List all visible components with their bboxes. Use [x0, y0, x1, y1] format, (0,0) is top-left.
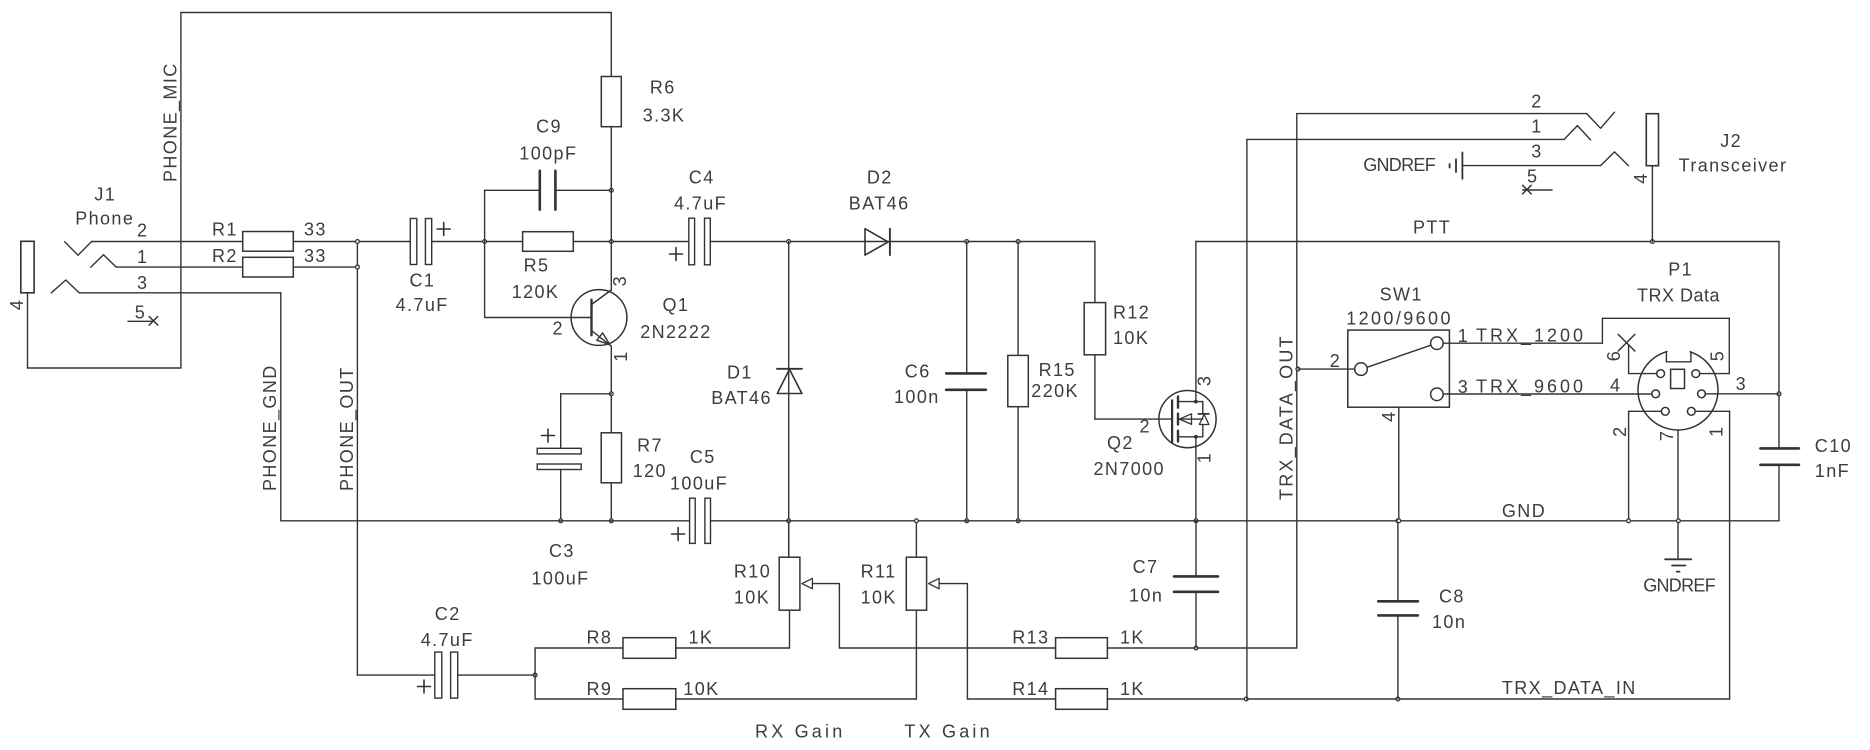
wire C10 bottom [1778, 465, 1780, 521]
svg-text:5: 5 [1527, 167, 1538, 187]
wire P1 pin2 GND [1629, 411, 1662, 521]
connector J1 sleeve bar [21, 241, 34, 292]
pin number P1-6 [1604, 350, 1624, 361]
label J2 [1679, 131, 1788, 176]
resistor R5 [523, 232, 574, 252]
pin number J1-1 [137, 247, 148, 267]
svg-text:TRX_DATA_IN: TRX_DATA_IN [1502, 678, 1637, 699]
svg-text:SW1: SW1 [1380, 285, 1423, 305]
wire Q2 source [1195, 437, 1197, 521]
transistor Q1 body [571, 290, 627, 346]
wire P1 pin3 [1705, 393, 1779, 395]
wire J2 pin4 [1651, 166, 1653, 242]
label P1 [1637, 260, 1721, 306]
node C9 out [609, 188, 613, 192]
wire to SW1 pin2 [1298, 368, 1355, 370]
pin number J1-4 [7, 299, 27, 310]
svg-text:1: 1 [611, 350, 631, 361]
svg-text:2: 2 [1330, 351, 1341, 371]
pin number SW1-3 [1458, 377, 1469, 397]
switch SW1 pin1 throw [1431, 337, 1444, 350]
svg-text:4.7uF: 4.7uF [396, 295, 449, 315]
svg-text:1: 1 [1706, 425, 1726, 436]
svg-text:TRX_DATA_OUT: TRX_DATA_OUT [1276, 334, 1297, 500]
svg-text:PHONE_OUT: PHONE_OUT [337, 366, 358, 491]
pin number P1-4 [1610, 376, 1621, 396]
svg-text:GNDREF: GNDREF [1363, 155, 1436, 175]
connector P1 pin6 circle [1657, 370, 1665, 378]
pin number Q1-2 [553, 319, 564, 339]
wire C6 top [966, 242, 968, 374]
pin number SW1-2 [1330, 351, 1341, 371]
svg-text:10K: 10K [861, 588, 897, 608]
svg-text:7: 7 [1657, 430, 1677, 441]
capacitor C1 polarity [437, 223, 450, 236]
svg-text:R15: R15 [1039, 360, 1076, 380]
net label GNDREF bottom [1643, 576, 1716, 596]
svg-text:R12: R12 [1113, 303, 1150, 323]
resistor R14 [1056, 689, 1108, 710]
wire R9 to R11 [676, 698, 917, 700]
label C9 [519, 117, 577, 164]
label C1 [396, 271, 449, 316]
net label TRX_1200 [1476, 326, 1586, 347]
label R14 [1012, 679, 1145, 699]
svg-text:2N2222: 2N2222 [640, 322, 711, 342]
svg-text:C2: C2 [435, 604, 461, 624]
label R2 [212, 246, 327, 266]
svg-text:220K: 220K [1031, 381, 1079, 401]
capacitor C2 plates [435, 652, 458, 698]
connector J2 sleeve bar [1646, 114, 1658, 166]
wire C7 top [1195, 521, 1197, 577]
transistor Q2 body [1159, 391, 1216, 448]
potentiometer R11 wiper [929, 578, 968, 699]
svg-text:1K: 1K [1120, 679, 1145, 699]
wire PHONE_MIC vertical [180, 13, 182, 369]
wire J1 pin1 to R2 [116, 266, 243, 268]
svg-text:J2: J2 [1720, 131, 1742, 151]
wire R10 bottom [789, 610, 791, 648]
svg-text:2: 2 [137, 221, 148, 241]
svg-text:PTT: PTT [1413, 218, 1451, 238]
svg-text:R11: R11 [861, 562, 897, 582]
wire Q1 base [485, 317, 592, 319]
connector P1 pin4 circle [1652, 390, 1660, 398]
svg-text:R5: R5 [524, 256, 550, 276]
wire emitter to C3 [561, 394, 612, 449]
svg-text:3: 3 [1736, 374, 1747, 394]
resistor R11 [906, 557, 926, 610]
svg-text:C3: C3 [549, 541, 575, 561]
connector J1 pin 5 no-connect [128, 317, 158, 326]
node D1 rail [787, 519, 791, 523]
node R1 out [356, 240, 360, 244]
svg-text:BAT46: BAT46 [711, 388, 772, 408]
svg-text:R10: R10 [734, 562, 771, 582]
pin number P1-5 [1707, 350, 1727, 361]
wire C2 node vertical [534, 648, 536, 699]
node P1 pin2 rail [1627, 519, 1631, 523]
wire PTT down to C10 [1778, 242, 1780, 449]
net label PTT [1413, 218, 1451, 238]
label C3 [532, 541, 590, 589]
resistor R1 [243, 232, 294, 252]
wire PHONE_OUT to C2 [357, 674, 434, 676]
svg-text:TRX_9600: TRX_9600 [1476, 377, 1586, 398]
svg-text:C10: C10 [1815, 436, 1852, 456]
node C2 out [533, 673, 537, 677]
ground GNDREF top [1450, 152, 1463, 178]
connector J2 pin5 no-connect [1523, 185, 1553, 194]
connector P1 pin1 circle [1687, 407, 1695, 415]
svg-text:10K: 10K [683, 679, 719, 699]
pin number J1-5 [135, 303, 146, 323]
wire C2 out [458, 674, 535, 676]
node R11 rail [915, 519, 919, 523]
wire J2 pin1 [1247, 138, 1564, 140]
svg-text:R1: R1 [212, 220, 238, 240]
label Q2 [1094, 433, 1165, 479]
svg-text:C7: C7 [1133, 557, 1159, 577]
connector J2 pin2 contact [1587, 112, 1615, 128]
svg-text:120: 120 [633, 461, 667, 481]
wire J1 pin2 to R1 [92, 241, 243, 243]
wire R6 top [610, 13, 612, 77]
potentiometer R10 wiper [802, 578, 840, 648]
wire R11 top [915, 521, 917, 557]
svg-text:3: 3 [610, 275, 630, 286]
svg-text:1: 1 [1195, 452, 1215, 463]
capacitor C3 polarity [542, 429, 555, 442]
pin number Q2-3 [1195, 375, 1215, 386]
svg-text:TX Gain: TX Gain [904, 722, 992, 742]
wire TRX_9600 [1443, 393, 1652, 395]
switch SW1 pin3 throw [1431, 388, 1444, 401]
label TX Gain [904, 722, 992, 742]
label R6 [643, 77, 686, 125]
wire Q1 emitter down [610, 346, 612, 433]
net label PHONE_GND [260, 364, 281, 491]
wire R7 bottom [610, 483, 612, 521]
svg-text:C8: C8 [1439, 587, 1465, 607]
capacitor C1 plates [410, 219, 431, 265]
svg-text:TRX Data: TRX Data [1637, 286, 1721, 306]
wire SW1 pin4 GND [1398, 407, 1400, 521]
connector J2 pin1 contact [1564, 126, 1590, 140]
pin number SW1-1 [1458, 326, 1469, 346]
svg-text:Q2: Q2 [1107, 433, 1134, 453]
transistor Q2 source link [1178, 435, 1203, 439]
pin number P1-1 [1706, 425, 1726, 436]
svg-text:33: 33 [304, 246, 327, 266]
wire P1 pin1 TRX_DATA_IN [1695, 411, 1729, 699]
svg-text:1200/9600: 1200/9600 [1346, 309, 1453, 329]
pin number J1-2 [137, 221, 148, 241]
capacitor C5 plates [690, 498, 711, 543]
pin number J2-3 [1531, 142, 1542, 162]
wire to R9 [535, 698, 623, 700]
svg-text:100pF: 100pF [519, 144, 577, 164]
wire R13 to TRX_DATA_OUT [1107, 647, 1296, 649]
label R12 [1113, 303, 1150, 349]
pin number P1-2 [1610, 425, 1630, 436]
transistor Q2 gate bar [1171, 400, 1173, 442]
resistor R6 [601, 77, 621, 127]
wire D1 top [788, 242, 790, 558]
svg-text:R2: R2 [212, 246, 238, 266]
pin number Q1-3 [610, 275, 630, 286]
wire TRX_DATA_OUT [1296, 114, 1298, 648]
wire C7 bottom [1195, 592, 1197, 648]
svg-text:C4: C4 [689, 168, 715, 188]
svg-text:D2: D2 [867, 168, 893, 188]
label RX Gain [755, 722, 845, 742]
svg-text:C6: C6 [905, 362, 931, 382]
wire R12 to Q2 gate [1095, 355, 1172, 419]
label R13 [1012, 628, 1145, 648]
svg-text:D1: D1 [727, 363, 753, 383]
svg-text:GND: GND [1502, 501, 1546, 521]
transistor Q2 body diode [1198, 402, 1209, 437]
svg-text:2: 2 [1610, 425, 1630, 436]
svg-text:10K: 10K [734, 588, 770, 608]
svg-text:2: 2 [1140, 417, 1151, 437]
wire Q2 drain [1195, 242, 1197, 402]
connector J1 pin 1 contact [91, 255, 116, 267]
label C5 [670, 447, 728, 494]
capacitor C6 [946, 373, 986, 389]
svg-text:GNDREF: GNDREF [1643, 576, 1716, 596]
svg-text:100n: 100n [894, 387, 940, 407]
node C7 bottom [1194, 646, 1198, 650]
capacitor C4 polarity [670, 248, 683, 261]
label C4 [674, 168, 727, 214]
wire R1 to C1 [293, 241, 410, 243]
resistor R2 [243, 257, 294, 277]
svg-text:1: 1 [137, 247, 148, 267]
svg-text:RX Gain: RX Gain [755, 722, 845, 742]
connector J1 pin 3 contact [51, 280, 79, 293]
pin number Q2-2 [1140, 417, 1151, 437]
node D1 top [787, 240, 791, 244]
node SW1 pin4 rail [1397, 519, 1401, 523]
resistor R15 [1008, 355, 1029, 406]
transistor Q1 emitter [592, 331, 612, 347]
svg-text:PHONE_MIC: PHONE_MIC [161, 62, 182, 182]
svg-text:PHONE_GND: PHONE_GND [260, 364, 281, 491]
wire TRX_1200 [1443, 318, 1729, 373]
wire wiper to R13 [839, 647, 1055, 649]
ground GNDREF bottom [1665, 559, 1691, 571]
svg-text:C5: C5 [690, 447, 716, 467]
pin number Q1-1 [611, 350, 631, 361]
wire R5 to C4 [573, 241, 689, 243]
label R7 [633, 436, 667, 482]
svg-text:R9: R9 [587, 679, 613, 699]
node C8 bottom [1396, 697, 1400, 701]
wire D1 bottom to R10 [788, 521, 790, 557]
svg-text:R6: R6 [650, 77, 676, 97]
svg-text:10n: 10n [1432, 612, 1466, 632]
transistor Q1 base bar [590, 300, 592, 336]
svg-text:Transceiver: Transceiver [1679, 156, 1788, 176]
net label PHONE_MIC [161, 62, 182, 182]
wire to R8 [535, 647, 623, 649]
label D2 [849, 168, 910, 214]
wire GND rail right [711, 520, 1780, 522]
pin number J2-5 [1527, 167, 1538, 187]
transistor Q2 drain link [1178, 400, 1203, 404]
node R7 rail [609, 519, 613, 523]
net label GND [1502, 501, 1546, 521]
node Q2 source rail [1194, 519, 1198, 523]
svg-text:4: 4 [7, 299, 27, 310]
svg-text:1K: 1K [689, 628, 714, 648]
wire C4 to D2 [710, 241, 890, 243]
transistor Q2 channel [1177, 396, 1179, 441]
connector P1 shell [1638, 350, 1718, 430]
svg-text:10K: 10K [1113, 328, 1149, 348]
wire PTT [1196, 241, 1779, 243]
wire C8 bottom [1397, 615, 1399, 699]
wire GND rail left [281, 520, 690, 522]
svg-text:120K: 120K [512, 282, 560, 302]
svg-text:Q1: Q1 [663, 295, 690, 315]
pin number P1-7 [1657, 430, 1677, 441]
node DIN pin3 tap [1777, 392, 1781, 396]
svg-text:R13: R13 [1012, 628, 1049, 648]
svg-text:4: 4 [1379, 410, 1399, 421]
svg-text:3.3K: 3.3K [643, 105, 686, 125]
pin number Q2-1 [1195, 452, 1215, 463]
svg-text:2: 2 [1531, 92, 1542, 112]
label D1 [711, 363, 772, 409]
connector P1 pin3 circle [1698, 390, 1706, 398]
wire R2 to node [293, 266, 357, 268]
wire PHONE_OUT vertical [356, 242, 358, 676]
node R5 out [609, 240, 613, 244]
svg-text:100uF: 100uF [670, 474, 728, 494]
wire TRX_DATA_IN vertical [1246, 139, 1248, 699]
svg-text:33: 33 [304, 220, 327, 240]
node SW1 pin2 tap [1296, 367, 1300, 371]
wire C9 feedback left [485, 190, 540, 317]
svg-text:5: 5 [1707, 350, 1727, 361]
label C10 [1815, 436, 1852, 481]
switch SW1 box [1348, 330, 1450, 407]
connector J2 pin3 contact [1601, 152, 1629, 166]
wire C3 bottom [560, 470, 562, 521]
label C6 [894, 362, 940, 408]
svg-text:5: 5 [135, 303, 146, 323]
wire R11 bottom [915, 610, 917, 699]
svg-text:10n: 10n [1129, 586, 1163, 606]
label C7 [1129, 557, 1163, 606]
pin number J2-4 [1631, 172, 1651, 183]
net label TRX_DATA_OUT [1276, 334, 1297, 500]
svg-text:100uF: 100uF [532, 569, 590, 589]
label R11 [861, 562, 897, 608]
svg-text:Phone: Phone [75, 209, 134, 229]
capacitor C3 plates [537, 448, 581, 469]
wire TRX_DATA_IN row [1107, 698, 1729, 700]
capacitor C7 [1174, 576, 1218, 591]
wire VCC top rail [181, 12, 611, 14]
resistor R7 [601, 433, 621, 483]
svg-text:3: 3 [1195, 375, 1215, 386]
resistor R8 [623, 638, 676, 659]
svg-text:BAT46: BAT46 [849, 194, 910, 214]
wire C1 to R5 [432, 241, 523, 243]
wire J2 pin2 [1297, 113, 1587, 115]
capacitor C5 polarity [672, 528, 685, 541]
node C6 rail [965, 519, 969, 523]
capacitor C9 [540, 171, 556, 210]
transistor Q1 collector [592, 290, 612, 305]
label R1 [212, 220, 327, 240]
wire R6 bottom collector [610, 127, 612, 290]
svg-text:3: 3 [137, 273, 148, 293]
node J2 pin4 tap [1651, 240, 1655, 244]
connector J1 pin 2 contact [65, 242, 92, 256]
label R10 [734, 562, 771, 608]
wire J2 pin3 [1462, 165, 1600, 167]
diode D1 [777, 369, 802, 394]
node R15 rail [1016, 519, 1020, 523]
wire C6 bottom [966, 390, 968, 521]
svg-text:3: 3 [1531, 142, 1542, 162]
svg-text:C9: C9 [536, 117, 562, 137]
net label TRX_DATA_IN [1502, 678, 1637, 699]
svg-text:R7: R7 [637, 436, 663, 456]
label SW1 [1346, 285, 1453, 329]
wire C8 top [1397, 521, 1399, 602]
connector P1 key [1671, 369, 1685, 388]
switch SW1 lever [1367, 345, 1431, 367]
pin number J2-2 [1531, 92, 1542, 112]
svg-text:4: 4 [1610, 376, 1621, 396]
diode D2 [865, 229, 890, 255]
wire PHONE_MIC to jack sleeve [28, 293, 181, 368]
resistor R9 [623, 689, 676, 710]
capacitor C8 [1378, 601, 1418, 615]
capacitor C10 [1760, 448, 1799, 464]
wire J1 pin3 PHONE_GND [79, 293, 281, 521]
wire C9 right [555, 189, 611, 191]
wire D2 to R12 [890, 241, 1095, 243]
wire R8 to R10 [676, 647, 790, 649]
svg-text:4: 4 [1631, 172, 1651, 183]
node C6 top [965, 240, 969, 244]
connector P1 pin6 no-connect [1618, 334, 1657, 373]
svg-text:TRX_1200: TRX_1200 [1476, 326, 1586, 347]
svg-text:R14: R14 [1012, 679, 1049, 699]
svg-text:1: 1 [1531, 117, 1542, 137]
connector P1 pin5 circle [1692, 370, 1700, 378]
node P1 pin7 rail [1677, 519, 1681, 523]
label R5 [512, 256, 560, 303]
svg-text:1K: 1K [1120, 628, 1145, 648]
node R14 junction [1244, 697, 1248, 701]
capacitor C2 polarity [418, 680, 431, 693]
svg-text:2: 2 [553, 319, 564, 339]
svg-text:4.7uF: 4.7uF [674, 194, 727, 214]
net label PHONE_OUT [337, 366, 358, 491]
label C2 [421, 604, 474, 650]
resistor R12 [1084, 303, 1105, 355]
resistor R10 [779, 557, 800, 610]
